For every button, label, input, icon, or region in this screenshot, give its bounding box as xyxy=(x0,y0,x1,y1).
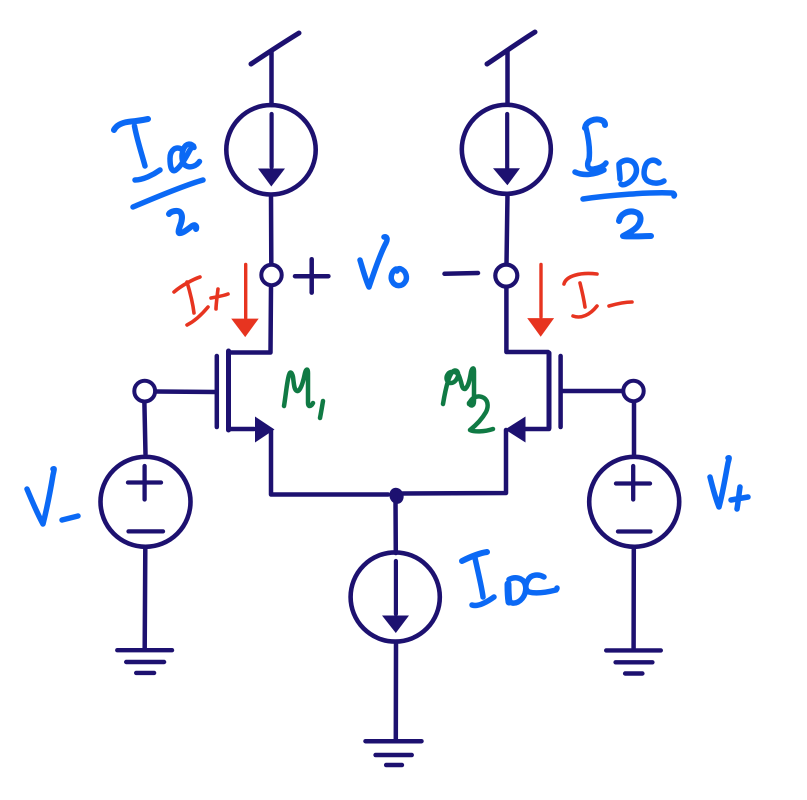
label Vo (blue) xyxy=(360,237,406,287)
label I+ (red) xyxy=(174,277,228,325)
voltage source V+ xyxy=(589,457,679,547)
current source I2 (IDC/2 right) xyxy=(462,105,551,194)
wire node out- to M2 drain xyxy=(506,287,548,352)
arrow I- (red) xyxy=(527,265,554,337)
wire I2 to node out- xyxy=(507,194,508,264)
wire V- top xyxy=(144,403,145,454)
label V+ (blue) xyxy=(710,458,748,509)
wire V+ top xyxy=(632,403,637,455)
wire M2 source to tail node xyxy=(402,430,506,494)
wire supply-right to I2 xyxy=(505,52,510,104)
ground (V+) xyxy=(606,650,661,673)
polarity - (node out-) xyxy=(445,271,479,276)
polarity + (node out+) xyxy=(295,259,328,292)
current source I1 (IDC/2 left) xyxy=(226,105,315,194)
wire I1 to node out+ xyxy=(269,196,274,263)
wire node out+ to M1 drain xyxy=(229,287,271,353)
node M1 gate (open circle) xyxy=(134,381,155,402)
wire supply-left to I1 xyxy=(269,51,274,105)
supply rail right (slash) xyxy=(487,32,535,64)
wire I3 to ground xyxy=(394,644,399,740)
label I- (red) xyxy=(564,273,632,316)
label M2 (green) xyxy=(443,368,493,431)
transistor M2 xyxy=(505,353,561,443)
arrow I+ (red) xyxy=(231,265,259,338)
current source I3 (IDC tail) xyxy=(351,552,440,641)
voltage source V- xyxy=(101,457,191,547)
wire M2 gate to node circle xyxy=(562,389,622,394)
junction tail node dot xyxy=(387,486,406,506)
label IDC/2 (left, blue) xyxy=(114,119,203,233)
transistor M1 xyxy=(217,351,275,443)
supply rail left (slash) xyxy=(251,33,299,64)
wire tail node to I3 xyxy=(393,498,398,553)
ground (tail) xyxy=(366,741,422,765)
wire M1 gate to node circle xyxy=(156,389,215,394)
wire M1 source to tail node xyxy=(271,430,388,495)
label M1 (green) xyxy=(284,370,323,418)
node out+ (open circle) xyxy=(261,265,281,285)
wire V+ to ground xyxy=(631,549,636,648)
wire V- to ground xyxy=(142,549,147,648)
ground (V-) xyxy=(117,650,172,673)
label V- (blue) xyxy=(27,469,78,524)
node out- (open circle) xyxy=(495,265,517,287)
node M2 gate (open circle) xyxy=(623,381,643,401)
label IDC/2 (right, blue) xyxy=(575,119,674,236)
label IDC (tail, blue) xyxy=(462,552,557,605)
